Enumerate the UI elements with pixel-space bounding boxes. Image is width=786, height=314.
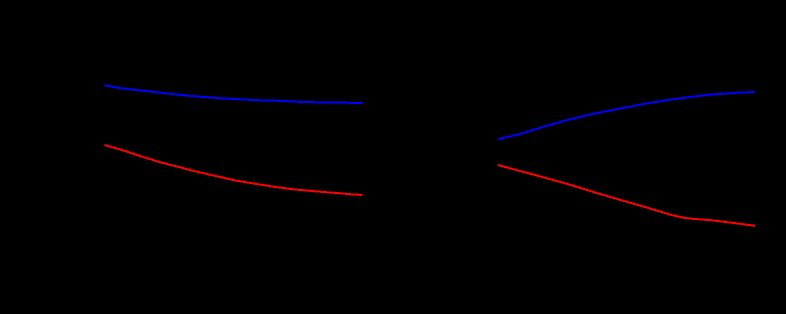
left subplot: blue curve (upper, slowly decreasing) <box>105 85 363 103</box>
left subplot: red curve (lower, decreasing, flattening) <box>105 145 363 195</box>
right subplot: red curve (falling, kink near x=685) <box>498 165 755 226</box>
right subplot: blue curve (rising, concave down) <box>498 92 755 139</box>
